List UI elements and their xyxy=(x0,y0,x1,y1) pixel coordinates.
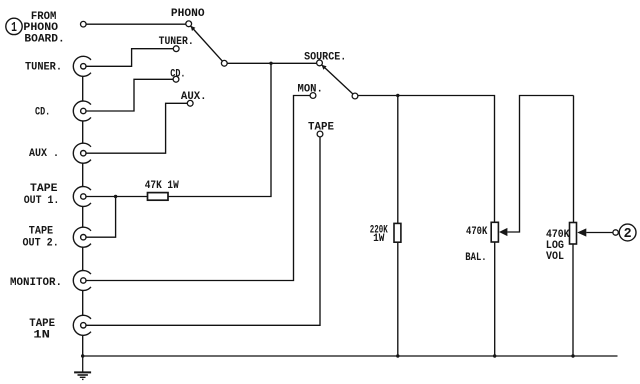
ground symbol xyxy=(74,356,91,379)
svg-text:MONITOR.: MONITOR. xyxy=(10,277,62,289)
terminal CD xyxy=(173,76,179,82)
terminal SOURCE top xyxy=(317,60,323,66)
junction dot tape out 1 / tape out 2 xyxy=(114,195,117,198)
terminal phono switch common xyxy=(221,60,227,66)
svg-text:VOL: VOL xyxy=(546,251,564,263)
junction dot ground / VOL xyxy=(571,354,574,357)
terminal MON xyxy=(310,93,316,99)
label TAPE IN xyxy=(29,318,55,341)
junction dot ground / jack chain xyxy=(81,354,84,357)
label TAPE OUT 2. xyxy=(23,226,59,250)
wire 220K bottom leg xyxy=(397,242,399,356)
potentiometer BAL 470K body xyxy=(491,222,498,242)
label 220K 1W xyxy=(370,224,388,245)
junction dot ground / 220K xyxy=(396,354,399,357)
junction dot ground / BAL xyxy=(493,354,496,357)
wire tape out 1 jack to 47K resistor xyxy=(86,196,147,198)
rca jack TAPE OUT 1 xyxy=(73,187,91,207)
wire tuner jack to TUNER terminal xyxy=(86,49,173,67)
svg-text:1W: 1W xyxy=(373,233,385,245)
svg-text:BOARD.: BOARD. xyxy=(24,34,64,46)
svg-text:CD.: CD. xyxy=(170,68,185,80)
switch arm phono xyxy=(191,26,223,61)
resistor R 220K 1W xyxy=(394,223,401,242)
svg-text:TAPE: TAPE xyxy=(29,226,54,238)
potentiometer VOL 470K body xyxy=(570,223,577,245)
rca jack AUX xyxy=(73,143,91,163)
svg-text:TAPE: TAPE xyxy=(30,183,58,195)
rca jack CD xyxy=(73,101,91,121)
wire jack shell chain xyxy=(82,76,84,356)
svg-text:FROM: FROM xyxy=(31,11,57,23)
wire main source bus xyxy=(358,96,495,223)
wire VOL wiper to terminal 2 xyxy=(586,232,613,234)
svg-text:AUX .: AUX . xyxy=(29,148,59,160)
svg-text:TAPE: TAPE xyxy=(29,318,55,330)
wire VOL top leg xyxy=(573,96,575,223)
terminal from phono board xyxy=(81,21,87,27)
callout circled 1 xyxy=(6,18,22,36)
wire BAL bottom leg xyxy=(494,242,496,356)
rca jack MONITOR xyxy=(73,271,91,291)
wire tape out 2 branch xyxy=(86,197,116,238)
wire ground bus xyxy=(83,355,618,357)
terminal TAPE xyxy=(317,131,323,137)
wire selector common bus xyxy=(227,62,316,64)
junction dot source bus / 220K xyxy=(396,94,399,97)
wire monitor jack to MON terminal xyxy=(86,96,310,281)
label TAPE OUT 1. xyxy=(24,183,60,207)
svg-text:AUX.: AUX. xyxy=(181,91,207,103)
svg-text:1: 1 xyxy=(11,20,17,36)
svg-text:470K: 470K xyxy=(466,226,488,238)
terminal AUX xyxy=(187,100,193,106)
svg-text:47K 1W: 47K 1W xyxy=(145,180,179,192)
svg-text:OUT 1.: OUT 1. xyxy=(24,195,60,207)
terminal source switch common xyxy=(352,93,358,99)
potentiometer VOL wiper arrow xyxy=(577,228,586,236)
callout circled 2 xyxy=(619,224,636,242)
svg-text:PHONO: PHONO xyxy=(171,8,205,20)
svg-text:BAL.: BAL. xyxy=(465,252,486,264)
svg-text:TAPE: TAPE xyxy=(308,121,334,133)
wire VOL bottom leg xyxy=(572,244,574,356)
svg-text:OUT 2.: OUT 2. xyxy=(23,238,59,250)
wire aux jack to AUX terminal xyxy=(86,103,187,153)
svg-text:CD.: CD. xyxy=(35,106,50,118)
rca jack TAPE IN xyxy=(73,315,91,335)
svg-text:TUNER.: TUNER. xyxy=(159,36,194,48)
svg-text:2: 2 xyxy=(624,227,632,242)
svg-text:PHONO: PHONO xyxy=(23,22,58,34)
wire 220K top leg xyxy=(397,96,399,224)
svg-text:MON.: MON. xyxy=(298,83,323,95)
potentiometer BAL wiper arrow xyxy=(499,228,507,236)
label FROM PHONO BOARD. xyxy=(23,11,64,46)
wire BAL wiper to VOL top link xyxy=(507,96,573,233)
junction dot selector bus / tape-out riser xyxy=(269,62,272,65)
resistor R 47K 1W xyxy=(148,193,169,201)
svg-text:TUNER.: TUNER. xyxy=(25,62,62,74)
svg-text:1N: 1N xyxy=(33,329,50,341)
wire 47K resistor to selector bus xyxy=(168,63,271,196)
wire phono-board to PHONO terminal xyxy=(86,23,186,25)
wire tape in jack to TAPE terminal xyxy=(86,137,320,325)
rca jack TUNER xyxy=(73,56,91,76)
svg-text:SOURCE.: SOURCE. xyxy=(304,52,346,64)
switch arm source xyxy=(322,65,353,94)
arrowhead on source switch arm xyxy=(322,65,327,70)
terminal PHONO xyxy=(186,21,192,27)
arrowhead on phono switch arm xyxy=(191,26,196,31)
label 470K (VOL) xyxy=(546,229,570,263)
terminal TUNER xyxy=(173,46,179,52)
terminal volume wiper out xyxy=(613,230,618,235)
wire cd jack to CD terminal xyxy=(86,79,173,111)
rca jack TAPE OUT 2 xyxy=(73,227,91,247)
